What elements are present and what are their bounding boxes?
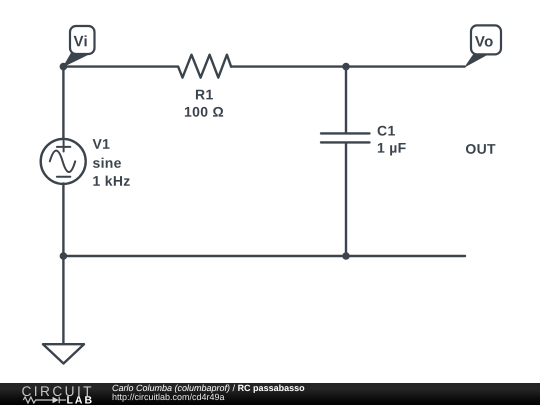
svg-text:V1: V1: [93, 136, 111, 152]
svg-text:sine: sine: [93, 155, 122, 171]
svg-text:OUT: OUT: [465, 141, 496, 157]
svg-text:Vi: Vi: [73, 33, 88, 50]
svg-text:100 Ω: 100 Ω: [184, 104, 224, 120]
svg-text:1 kHz: 1 kHz: [93, 173, 131, 189]
svg-text:C1: C1: [377, 122, 396, 138]
svg-text:R1: R1: [195, 86, 214, 102]
svg-text:Vo: Vo: [475, 34, 494, 51]
svg-text:1 µF: 1 µF: [377, 140, 407, 156]
svg-text:LAB: LAB: [67, 395, 95, 406]
